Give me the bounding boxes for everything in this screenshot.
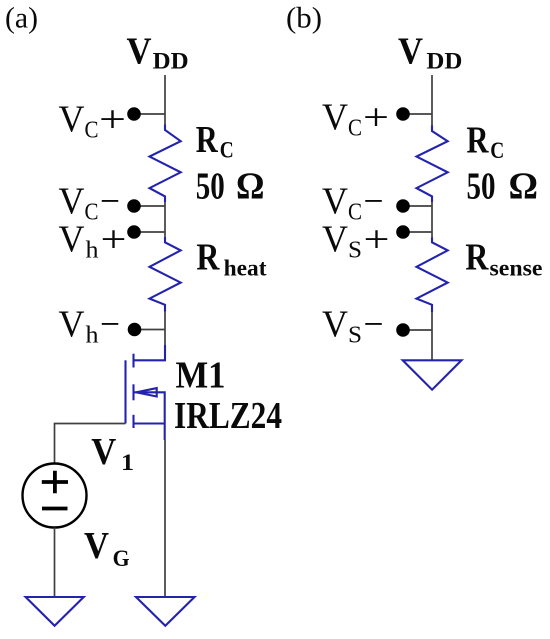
svg-text:V: V bbox=[59, 304, 86, 346]
wire VDD to RC top (b) bbox=[431, 75, 433, 126]
svg-text:V: V bbox=[322, 304, 349, 346]
svg-text:C: C bbox=[348, 115, 362, 141]
source lead bbox=[134, 424, 165, 441]
svg-text:C: C bbox=[85, 117, 99, 143]
svg-text:−: − bbox=[100, 180, 120, 222]
svg-text:C: C bbox=[85, 199, 99, 225]
svg-text:−: − bbox=[364, 180, 384, 222]
wire VC- stub (a) bbox=[134, 205, 165, 207]
label RC value (a) bbox=[196, 119, 265, 208]
node Vh+ junction dot (a) bbox=[127, 225, 141, 239]
body line bbox=[134, 392, 165, 423]
wire VC+ stub (a) bbox=[134, 113, 165, 115]
resistor RC (b) bbox=[417, 126, 448, 203]
channel segment bottom bbox=[132, 415, 134, 428]
wire VC+ stub (b) bbox=[403, 113, 432, 115]
svg-text:heat: heat bbox=[224, 256, 267, 281]
node VDD label (b) bbox=[398, 30, 462, 73]
source V1 bbox=[23, 464, 87, 528]
node VC+ junction dot (a) bbox=[127, 107, 141, 121]
wire gate to V1 (a) bbox=[55, 424, 126, 464]
svg-text:1: 1 bbox=[121, 450, 134, 475]
label V1 bbox=[91, 431, 134, 475]
node VC- junction dot (b) bbox=[396, 199, 410, 213]
wire M1 source to ground (a) bbox=[164, 440, 166, 597]
svg-text:V: V bbox=[84, 525, 109, 567]
svg-text:Ω: Ω bbox=[509, 166, 539, 208]
wire VS- stub (b) bbox=[403, 329, 432, 331]
wire V1 to ground (a) bbox=[54, 528, 56, 598]
node VC- junction dot (a) bbox=[127, 199, 141, 213]
transistor M1 IRLZ24 NMOS symbol bbox=[126, 345, 166, 440]
wire VDD to RC top (a) bbox=[164, 75, 166, 125]
node VDD label (a) bbox=[127, 30, 189, 73]
node Vh- junction dot (a) bbox=[128, 323, 142, 337]
svg-text:V: V bbox=[91, 431, 116, 473]
svg-text:50: 50 bbox=[196, 166, 225, 208]
svg-text:sense: sense bbox=[490, 256, 543, 281]
wire Vh- stub (a) bbox=[135, 329, 166, 331]
wire VS+ stub (b) bbox=[403, 231, 432, 233]
svg-text:V: V bbox=[127, 30, 152, 72]
svg-text:Ω: Ω bbox=[236, 166, 265, 208]
gate line bbox=[124, 360, 126, 423]
svg-text:C: C bbox=[348, 199, 362, 225]
node Vh- label (a) bbox=[59, 304, 121, 349]
svg-text:V: V bbox=[322, 96, 349, 138]
wire VC- stub (b) bbox=[403, 205, 432, 207]
svg-text:h: h bbox=[86, 238, 99, 264]
svg-text:V: V bbox=[398, 30, 423, 72]
resistor Rsense (b) bbox=[417, 238, 448, 313]
wire between RC and Rheat (a) bbox=[164, 202, 166, 237]
channel segment top bbox=[132, 354, 134, 368]
svg-text:M1: M1 bbox=[176, 355, 226, 397]
svg-text:S: S bbox=[348, 238, 362, 264]
wire Vh+ stub (a) bbox=[134, 231, 165, 233]
svg-text:R: R bbox=[196, 237, 219, 279]
svg-text:−: − bbox=[364, 304, 384, 346]
node VC+ label (a) bbox=[59, 98, 127, 143]
svg-text:S: S bbox=[348, 323, 362, 349]
svg-text:R: R bbox=[196, 119, 218, 161]
svg-text:C: C bbox=[220, 138, 234, 163]
label RC value (b) bbox=[467, 120, 539, 208]
node VC- label (b) bbox=[322, 180, 384, 225]
node VC+ label (b) bbox=[322, 96, 389, 141]
label Rsense (b) bbox=[465, 237, 542, 281]
svg-text:V: V bbox=[322, 180, 349, 222]
node VS+ label (b) bbox=[322, 219, 390, 264]
svg-text:C: C bbox=[490, 138, 504, 163]
resistor Rheat (a) bbox=[150, 237, 181, 312]
svg-text:50: 50 bbox=[467, 166, 496, 208]
node VS- junction dot (b) bbox=[396, 323, 410, 337]
wire Rheat to M1 drain (a) bbox=[164, 312, 166, 346]
svg-text:V: V bbox=[59, 180, 86, 222]
svg-text:DD: DD bbox=[426, 49, 462, 74]
body arrow head bbox=[136, 388, 156, 396]
node VC- label (a) bbox=[59, 180, 121, 225]
svg-text:G: G bbox=[113, 546, 130, 571]
svg-text:h: h bbox=[86, 323, 99, 349]
svg-text:IRLZ24: IRLZ24 bbox=[174, 395, 282, 437]
svg-text:+: + bbox=[99, 98, 126, 140]
channel segment middle bbox=[132, 384, 134, 400]
svg-text:(a): (a) bbox=[5, 2, 38, 35]
ground under M1 source bbox=[136, 597, 195, 626]
node VC+ junction dot (b) bbox=[396, 107, 410, 121]
svg-text:V: V bbox=[59, 98, 86, 140]
svg-text:R: R bbox=[465, 237, 488, 279]
svg-text:+: + bbox=[363, 96, 389, 138]
svg-text:R: R bbox=[467, 120, 489, 162]
svg-text:V: V bbox=[59, 219, 86, 261]
svg-text:+: + bbox=[364, 219, 390, 261]
resistor RC (a) bbox=[150, 125, 181, 203]
svg-text:+: + bbox=[101, 219, 127, 261]
wire Rsense to ground (b) bbox=[431, 312, 433, 360]
node VS+ junction dot (b) bbox=[396, 225, 410, 239]
svg-text:−: − bbox=[100, 304, 120, 346]
node Vh+ label (a) bbox=[59, 219, 127, 264]
drain lead bbox=[134, 345, 166, 360]
ground (b) bbox=[403, 360, 462, 389]
svg-text:DD: DD bbox=[153, 49, 189, 74]
svg-text:V: V bbox=[322, 219, 349, 261]
node VS- label (b) bbox=[322, 304, 384, 349]
ground under V1 bbox=[26, 597, 84, 626]
label VG bbox=[84, 525, 130, 571]
svg-text:(b): (b) bbox=[286, 2, 322, 35]
wire between RC and Rsense (b) bbox=[431, 202, 433, 238]
label Rheat (a) bbox=[196, 237, 267, 281]
